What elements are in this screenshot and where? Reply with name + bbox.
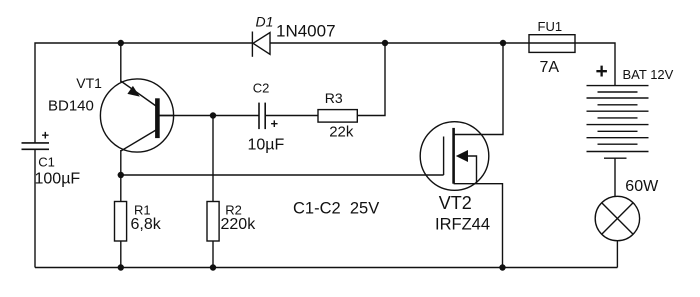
battery plate short 2 <box>598 104 638 106</box>
svg-text:7A: 7A <box>540 59 560 76</box>
node dot bottom R2 <box>210 264 216 270</box>
svg-text:+: + <box>596 60 608 83</box>
node dot bottom source <box>499 264 505 270</box>
wire top left segment <box>35 43 252 143</box>
wire base node to R2 top <box>212 116 214 202</box>
node dot top emitter <box>118 40 124 46</box>
wire top middle segment diode to fuse <box>270 42 529 44</box>
lamp EL1 cross line 2 <box>602 203 633 234</box>
svg-text:VT2: VT2 <box>439 193 472 213</box>
battery plate long 1 <box>587 85 649 87</box>
wire VT1 emitter to top rail <box>120 43 122 82</box>
resistor R1 body <box>115 202 127 242</box>
svg-text:100µF: 100µF <box>35 171 81 188</box>
lamp EL1 circle <box>595 196 639 240</box>
svg-text:VT1: VT1 <box>76 75 102 91</box>
mosfet VT2 gate bar <box>443 137 445 176</box>
wire node to R1 top <box>120 175 122 202</box>
svg-text:+: + <box>271 116 279 131</box>
wire gate line horizontal <box>121 174 444 176</box>
transistor VT1 collector diagonal <box>121 130 156 151</box>
svg-text:D1: D1 <box>256 14 274 30</box>
wire VT1 collector down to node <box>120 150 122 175</box>
transistor VT1 emitter diagonal <box>121 81 156 106</box>
capacitor C1 bottom plate <box>22 148 50 150</box>
node dot top drain <box>500 40 506 46</box>
wire C2 to R3 <box>265 115 318 117</box>
resistor R2 body <box>207 202 219 242</box>
resistor R3 body <box>318 110 357 123</box>
node dot base R2 <box>210 112 216 118</box>
svg-text:220k: 220k <box>221 216 257 233</box>
wire R2 bottom to bottom rail <box>212 241 214 268</box>
battery plate short 5 <box>598 143 638 145</box>
wire lamp to bottom rail <box>616 241 618 268</box>
battery plate long 3 <box>587 110 649 112</box>
svg-text:60W: 60W <box>625 178 659 195</box>
svg-text:C1: C1 <box>38 154 55 169</box>
wire VT2 drain to top rail <box>454 43 503 135</box>
transistor VT1 circle <box>100 79 173 152</box>
svg-text:6,8k: 6,8k <box>131 216 162 233</box>
svg-text:10µF: 10µF <box>248 137 285 154</box>
transistor VT1 base lead <box>157 115 173 117</box>
node dot top R3 <box>382 40 388 46</box>
battery plate long 6 <box>587 151 649 153</box>
svg-text:BD140: BD140 <box>48 98 94 115</box>
diode D1 triangle <box>253 33 270 55</box>
capacitor C2 left plate <box>258 103 260 130</box>
fuse FU1 through wire <box>529 42 575 44</box>
lamp EL1 cross line 1 <box>602 203 633 234</box>
mosfet VT2 source arrow <box>456 150 468 162</box>
svg-text:C1-C2 25V: C1-C2 25V <box>293 200 379 218</box>
battery plate short 4 <box>598 130 638 132</box>
wire left vertical below C1 <box>34 149 36 267</box>
battery terminal plate <box>604 157 627 159</box>
wire VT1 base to C2 <box>160 115 260 117</box>
svg-text:1N4007: 1N4007 <box>276 22 336 41</box>
svg-text:R3: R3 <box>325 90 343 106</box>
battery plate short 1 <box>598 91 638 93</box>
svg-text:+: + <box>42 128 50 143</box>
transistor VT1 emitter arrow <box>127 86 139 97</box>
capacitor C2 right plate <box>264 103 266 130</box>
wire fuse to battery <box>575 43 615 86</box>
mosfet VT2 circle <box>420 122 489 191</box>
svg-text:BAT 12V: BAT 12V <box>623 67 674 82</box>
battery plate short 3 <box>598 117 638 119</box>
node dot bottom R1 <box>118 264 124 270</box>
battery plate long 5 <box>587 137 649 139</box>
transistor VT1 base bar <box>155 98 160 138</box>
wire R3 to top rail <box>357 43 385 116</box>
capacitor C1 top plate <box>22 142 50 144</box>
wire battery to lamp <box>614 158 616 196</box>
svg-text:IRFZ44: IRFZ44 <box>435 215 490 233</box>
wire VT2 source to bottom rail <box>454 184 503 268</box>
battery plate long 2 <box>587 97 649 99</box>
svg-text:C2: C2 <box>253 80 270 95</box>
svg-text:FU1: FU1 <box>538 19 563 34</box>
diode D1 cathode bar <box>251 32 253 57</box>
battery plate long 4 <box>587 124 649 126</box>
svg-text:22k: 22k <box>329 124 354 141</box>
mosfet VT2 source link <box>468 156 477 184</box>
wire R1 bottom to bottom rail <box>120 241 122 268</box>
mosfet VT2 channel bar <box>452 128 455 184</box>
wire bottom rail <box>35 267 617 269</box>
fuse FU1 body <box>529 35 575 53</box>
node dot collector gate <box>118 172 124 178</box>
